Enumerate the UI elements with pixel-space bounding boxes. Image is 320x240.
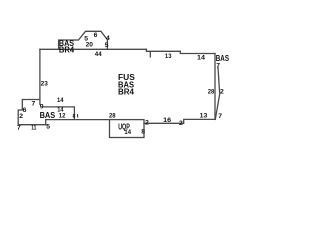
svg-text:5: 5 [46,124,50,131]
svg-text:5: 5 [105,42,109,49]
svg-text:16: 16 [163,117,171,124]
wall: outer right overhang line [215,68,219,120]
svg-text:20: 20 [86,41,94,48]
svg-text:11: 11 [31,124,36,131]
wall: main left edge [39,49,41,104]
svg-text:7: 7 [216,62,220,69]
wall: UQP box [110,120,145,138]
wall: step down at x=146.4 [146,49,180,51]
svg-text:2: 2 [220,89,224,96]
svg-text:14: 14 [57,97,64,104]
svg-text:2: 2 [145,120,149,127]
wall: right edge vertical [214,54,216,120]
svg-text:14: 14 [124,129,131,136]
svg-text:8: 8 [141,129,145,136]
wall: bottom right segment [144,119,215,123]
svg-text:13: 13 [165,53,172,60]
wall: small tick at x=152 [149,51,151,57]
svg-text:23: 23 [41,81,48,88]
svg-text:7: 7 [32,100,36,107]
svg-text:2: 2 [179,120,183,127]
svg-text:28: 28 [109,112,116,119]
svg-text:12: 12 [59,112,66,119]
svg-text:7: 7 [17,125,21,132]
svg-text:13: 13 [200,112,208,119]
svg-text:44: 44 [95,51,102,58]
svg-text:4: 4 [106,35,110,42]
wall: BAS bay bump on top edge [59,31,108,49]
svg-text:ι: ι [77,112,79,119]
svg-text:6: 6 [23,107,27,114]
wall: main bottom edge west of UQP [46,119,110,121]
wall: left wing bottom and stepped left side [18,100,46,125]
wall: main top edge [40,48,146,50]
svg-text:28: 28 [208,89,215,96]
svg-text:BAS: BAS [40,110,56,120]
svg-text:2: 2 [19,113,23,120]
svg-text:14: 14 [197,54,205,61]
svg-text:7: 7 [218,113,222,120]
wall: step down at x=180.3 [180,51,215,53]
svg-text:6: 6 [94,32,98,39]
svg-text:BR4: BR4 [118,87,134,97]
svg-text:BR4: BR4 [59,45,74,55]
wall: interior line and corner [43,107,74,118]
wall: left wing right vertical [45,120,47,125]
svg-text:BAS: BAS [216,53,229,63]
